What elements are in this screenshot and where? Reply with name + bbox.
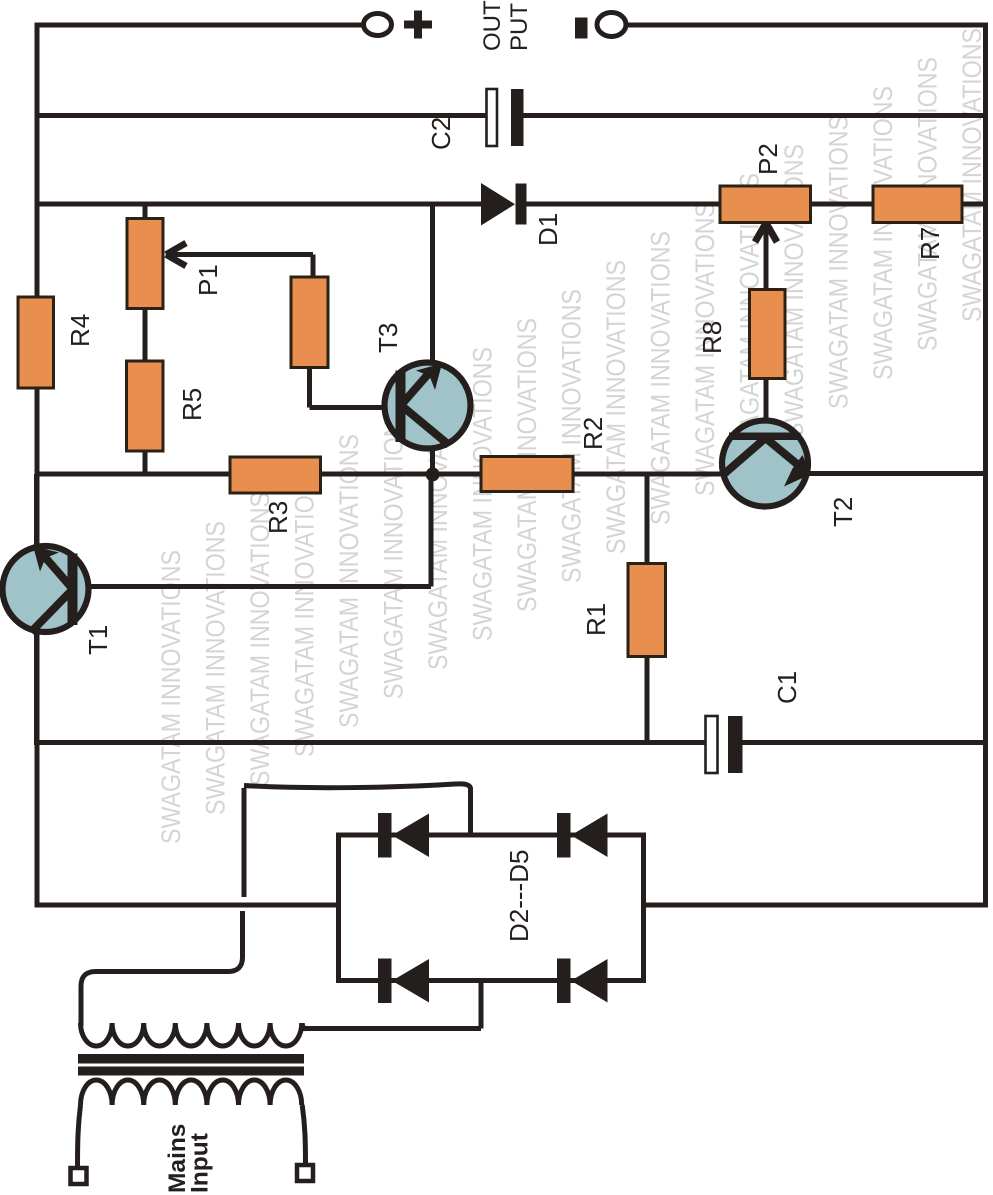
wire AC riser upper xyxy=(242,788,247,897)
transformer primary winding xyxy=(81,1080,302,1105)
wire left bus lower xyxy=(35,629,40,908)
wire T1 base vertical xyxy=(429,474,434,587)
svg-text:T3: T3 xyxy=(373,323,403,353)
mains terminal right xyxy=(297,1165,313,1181)
wire P1 wiper horizontal xyxy=(167,252,313,257)
P2 arrowhead xyxy=(755,223,777,242)
wire R3 row xyxy=(37,472,721,477)
transformer secondary right hook xyxy=(302,1023,307,1029)
wire top rail left xyxy=(37,23,364,28)
svg-text:R7: R7 xyxy=(915,227,945,260)
capacitor C2 xyxy=(487,89,498,146)
diode D3 (bridge top-right) xyxy=(557,813,608,858)
svg-text:T2: T2 xyxy=(828,497,858,527)
svg-text:C2: C2 xyxy=(426,117,456,150)
svg-text:SWAGATAM INNOVATIONS: SWAGATAM INNOVATIONS xyxy=(601,260,631,554)
wire P1 stub xyxy=(143,204,148,220)
bridge rectifier D2---D5 box xyxy=(339,835,644,981)
svg-text:T1: T1 xyxy=(83,625,113,655)
svg-text:P1: P1 xyxy=(193,264,223,296)
watermark SWAGATAM INNOVATIONS tiles xyxy=(156,28,987,844)
transformer secondary winding xyxy=(81,1023,302,1046)
svg-text:SWAGATAM INNOVATIONS: SWAGATAM INNOVATIONS xyxy=(868,86,898,380)
wire T3 emitter lead xyxy=(430,447,435,474)
wire right bus xyxy=(983,23,988,908)
wire C2 row left xyxy=(37,113,489,118)
mains terminal left xyxy=(71,1168,87,1184)
wire P2 arrow vertical xyxy=(764,225,769,291)
resistor R5 xyxy=(127,361,164,451)
svg-text:SWAGATAM INNOVATIONS: SWAGATAM INNOVATIONS xyxy=(379,405,409,699)
svg-text:R2: R2 xyxy=(578,417,608,450)
wire D1 row xyxy=(37,202,482,207)
resistor R8 xyxy=(750,290,786,379)
svg-text:PUT: PUT xyxy=(506,3,533,51)
wire R6 down xyxy=(307,366,312,408)
wire R1 bottom lead xyxy=(645,655,650,744)
output minus terminal xyxy=(597,13,626,37)
diode D5 (bridge bottom-right) xyxy=(557,959,608,1004)
wire secondary right stub xyxy=(300,1026,481,1031)
svg-text:SWAGATAM INNOVATIONS: SWAGATAM INNOVATIONS xyxy=(646,231,676,525)
capacitor C1 xyxy=(706,716,718,773)
minus sign xyxy=(575,18,588,39)
svg-text:R4: R4 xyxy=(65,314,95,347)
wire secondary left lead and horizontal xyxy=(81,972,230,1027)
svg-text:R3: R3 xyxy=(263,501,293,534)
wire R8 to T2 base xyxy=(764,377,769,421)
svg-text:R5: R5 xyxy=(177,388,207,421)
svg-text:D1: D1 xyxy=(533,213,563,246)
wire AC riser lower xyxy=(228,911,243,972)
resistor R2 xyxy=(481,457,573,492)
wire bridge to minus bus xyxy=(641,903,988,908)
wire left bus mid xyxy=(35,387,40,549)
svg-text:SWAGATAM INNOVATIONS: SWAGATAM INNOVATIONS xyxy=(824,115,854,409)
svg-text:SWAGATAM INNOVATIONS: SWAGATAM INNOVATIONS xyxy=(957,28,987,322)
wire R6 to T3 base xyxy=(310,405,387,410)
wire T2 emitter to bus xyxy=(808,471,986,476)
wire T3 collector lead xyxy=(430,204,435,364)
wire D1 to P2 xyxy=(525,202,721,207)
svg-text:SWAGATAM INNOVATIONS: SWAGATAM INNOVATIONS xyxy=(156,550,186,844)
wire AC top wavy xyxy=(244,784,471,837)
svg-text:OUT: OUT xyxy=(479,0,506,51)
wire C1 row left xyxy=(37,740,707,745)
svg-text:SWAGATAM INNOVATIONS: SWAGATAM INNOVATIONS xyxy=(201,521,231,815)
resistor R6 xyxy=(291,277,328,368)
wire secondary right riser xyxy=(479,978,484,1029)
svg-text:Input: Input xyxy=(187,1133,214,1193)
wire top rail right xyxy=(626,23,988,28)
wire plus rail to bridge xyxy=(35,903,339,908)
output plus terminal xyxy=(364,14,392,36)
transformer core xyxy=(78,1054,304,1064)
svg-text:SWAGATAM INNOVATIONS: SWAGATAM INNOVATIONS xyxy=(468,347,498,641)
diode D2 (bridge top-left) xyxy=(378,813,429,858)
P1 wiper arrowhead xyxy=(166,243,186,266)
wire R1 top lead xyxy=(645,474,650,565)
wire R7 to bus xyxy=(961,202,986,207)
svg-text:P2: P2 xyxy=(753,143,783,175)
resistor R1 xyxy=(628,564,666,657)
plus sign xyxy=(404,11,432,39)
diode D1 xyxy=(481,183,527,226)
wire T1 base horizontal xyxy=(74,584,431,589)
resistor R7 xyxy=(873,186,962,223)
wire P2 to R7 xyxy=(810,202,874,207)
svg-text:R8: R8 xyxy=(697,321,727,354)
diode D4 (bridge bottom-left) xyxy=(378,959,429,1004)
transistor T3 xyxy=(385,363,471,449)
resistor R4 xyxy=(18,297,54,388)
wire P1 to R5 xyxy=(143,308,148,362)
primary left lead xyxy=(78,1105,81,1168)
svg-text:C1: C1 xyxy=(772,671,802,704)
wire R5 to row xyxy=(143,450,148,474)
wire left bus upper xyxy=(35,23,40,300)
potentiometer P2 body xyxy=(720,186,811,223)
svg-text:SWAGATAM INNOVATIONS: SWAGATAM INNOVATIONS xyxy=(290,463,320,757)
transistor T1 xyxy=(3,474,89,745)
junction node dot xyxy=(426,467,440,481)
primary right lead xyxy=(302,1105,305,1165)
wire C2 row right xyxy=(522,113,986,118)
resistor R3 xyxy=(230,457,321,493)
svg-text:SWAGATAM INNOVATIONS: SWAGATAM INNOVATIONS xyxy=(334,434,364,728)
svg-text:D2---D5: D2---D5 xyxy=(504,850,534,942)
potentiometer P1 body xyxy=(127,219,163,309)
svg-text:R1: R1 xyxy=(581,603,611,636)
wire C1 row right xyxy=(742,740,986,745)
wire wiper down to R6 xyxy=(311,255,316,280)
transistor T2 xyxy=(722,421,811,507)
